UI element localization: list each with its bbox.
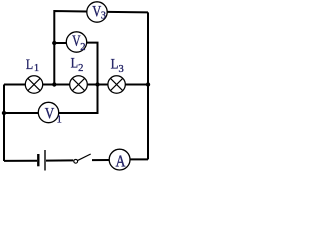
voltmeter V1 — [38, 102, 62, 125]
junction node V2 tap — [52, 41, 56, 45]
ammeter A — [109, 149, 130, 170]
lamp L1 — [25, 76, 42, 93]
wire left vertical — [3, 85, 5, 162]
junction node right — [146, 82, 150, 86]
svg-text:3: 3 — [101, 11, 106, 22]
switch — [74, 154, 91, 163]
wire L2 to L3 — [88, 84, 108, 86]
svg-text:A: A — [116, 152, 127, 171]
wire ammeter-right — [130, 158, 148, 160]
svg-text:2: 2 — [78, 63, 83, 74]
svg-text:2: 2 — [80, 42, 85, 53]
battery (cell) — [38, 150, 45, 171]
svg-text:L: L — [26, 57, 33, 73]
wire L3 to right vertical — [125, 84, 148, 86]
wire top left segment — [54, 11, 86, 85]
svg-text:V: V — [45, 105, 55, 122]
wire V2 left branch — [54, 42, 66, 44]
wire V2 right branch — [87, 43, 98, 85]
wire switch-to-ammeter — [92, 159, 109, 161]
lamp L3 — [108, 76, 125, 93]
lamp L2 — [70, 76, 88, 94]
junction node L1-L2 — [52, 82, 56, 86]
voltmeter V2 — [66, 32, 86, 53]
wire bottom battery-left — [4, 160, 37, 162]
voltmeter V3 — [87, 2, 107, 22]
wire lamp row left to L1 — [4, 84, 25, 86]
wire V1 right branch — [59, 85, 98, 114]
wire right vertical — [147, 12, 149, 159]
svg-text:L: L — [111, 57, 119, 73]
svg-text:3: 3 — [119, 64, 124, 75]
wire L1 to L2 — [43, 84, 70, 86]
wire V1 left branch — [4, 112, 38, 114]
wire top right segment — [107, 11, 148, 14]
svg-text:L: L — [71, 55, 79, 71]
junction node V1 tap — [2, 111, 6, 115]
svg-text:1: 1 — [57, 114, 62, 125]
wire battery-to-switch — [46, 159, 73, 161]
junction node L2-L3 — [95, 82, 99, 86]
svg-text:1: 1 — [34, 63, 39, 74]
